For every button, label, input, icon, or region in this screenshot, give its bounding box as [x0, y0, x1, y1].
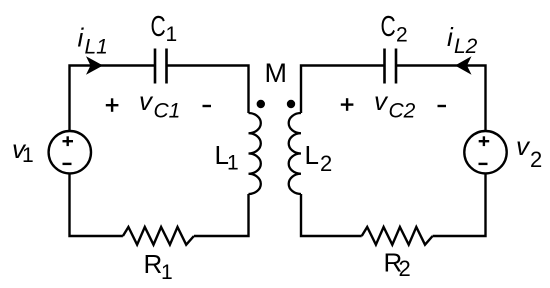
capacitor C2: [383, 49, 386, 84]
wire: R2 to bottom-right corner up to source v2: [433, 174, 486, 237]
svg-text:M: M: [265, 58, 288, 88]
capacitor C1: [154, 49, 157, 84]
svg-text:2: 2: [396, 24, 408, 47]
svg-text:R: R: [144, 249, 163, 279]
inductor L2: [289, 113, 301, 194]
wire: L1 to bottom-right corner of left loop: [194, 194, 249, 236]
svg-text:v: v: [516, 131, 531, 161]
voltage source v1: [49, 131, 91, 173]
svg-text:v: v: [374, 86, 389, 116]
wire: right loop top-left corner down to L2: [301, 66, 384, 114]
wire: R1 to bottom-left corner up to source v1: [70, 174, 123, 237]
svg-text:2: 2: [530, 147, 542, 172]
wire: C1 to top-right corner of left loop, down to L1: [168, 66, 249, 114]
label vC2 polarity plus: [341, 98, 354, 111]
svg-text:v: v: [139, 86, 154, 116]
current arrow iL1: [86, 56, 103, 75]
wire: L2 down to bottom-left corner of right loop: [301, 194, 362, 236]
svg-text:L2: L2: [454, 35, 478, 58]
svg-text:C: C: [151, 11, 166, 43]
voltage source v2: [464, 131, 506, 173]
label vC2 polarity minus: [438, 105, 447, 107]
svg-text:1: 1: [22, 144, 34, 167]
svg-text:C: C: [381, 11, 396, 43]
svg-text:2: 2: [320, 151, 332, 176]
label vC1 polarity plus: [106, 98, 119, 112]
wire: left loop top, source v1 to C1: [70, 66, 155, 131]
resistor R1: [123, 227, 194, 245]
svg-text:L: L: [305, 140, 319, 170]
resistor R2: [362, 227, 433, 245]
dot mark left coil: [257, 100, 265, 108]
svg-text:1: 1: [161, 261, 173, 284]
label vC1 polarity minus: [203, 105, 212, 107]
svg-text:1: 1: [166, 23, 178, 46]
wire: C2 to top-right corner, down to source v2: [397, 66, 486, 131]
svg-text:2: 2: [399, 256, 411, 281]
current arrow iL2: [455, 56, 472, 75]
svg-text:1: 1: [227, 152, 239, 175]
inductor L1: [249, 113, 261, 194]
dot mark right coil: [287, 100, 295, 108]
svg-text:C2: C2: [389, 100, 416, 123]
svg-text:C1: C1: [154, 100, 181, 123]
svg-text:L1: L1: [85, 36, 108, 59]
